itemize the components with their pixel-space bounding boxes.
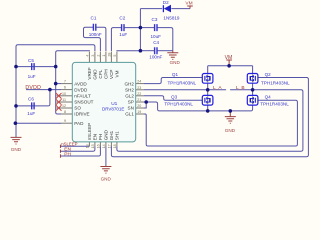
svg-text:5: 5 bbox=[113, 55, 117, 57]
svg-text:2: 2 bbox=[97, 55, 101, 57]
svg-text:C2: C2 bbox=[119, 16, 125, 21]
svg-text:9: 9 bbox=[64, 119, 66, 123]
svg-text:AVDD: AVDD bbox=[74, 81, 87, 86]
svg-text:C1: C1 bbox=[91, 16, 97, 21]
svg-text:23: 23 bbox=[137, 86, 141, 90]
svg-text:PH: PH bbox=[98, 134, 103, 140]
svg-text:SH1: SH1 bbox=[115, 131, 120, 140]
svg-text:GH1: GH1 bbox=[109, 130, 114, 140]
svg-text:DVDD: DVDD bbox=[74, 87, 88, 92]
svg-text:8: 8 bbox=[64, 110, 66, 114]
svg-text:18: 18 bbox=[113, 144, 117, 148]
svg-text:4: 4 bbox=[86, 55, 90, 57]
svg-text:22: 22 bbox=[137, 92, 141, 96]
svg-text:nSLEEP: nSLEEP bbox=[61, 142, 77, 147]
svg-text:TPH1R403NL: TPH1R403NL bbox=[261, 80, 290, 85]
svg-text:14: 14 bbox=[102, 144, 106, 148]
svg-text:TPH1R403NL: TPH1R403NL bbox=[168, 80, 197, 85]
svg-text:VM: VM bbox=[185, 0, 192, 6]
svg-text:VM: VM bbox=[225, 55, 233, 61]
svg-text:Q1: Q1 bbox=[172, 72, 179, 77]
svg-text:nFAULT: nFAULT bbox=[74, 94, 91, 99]
svg-text:1uF: 1uF bbox=[27, 111, 35, 116]
svg-text:100nF: 100nF bbox=[149, 54, 162, 59]
svg-text:10: 10 bbox=[62, 92, 66, 96]
svg-text:1uF: 1uF bbox=[28, 74, 36, 79]
svg-text:SO: SO bbox=[74, 106, 81, 111]
svg-text:28: 28 bbox=[108, 53, 112, 57]
svg-text:SN: SN bbox=[128, 106, 134, 111]
svg-text:SP: SP bbox=[128, 100, 134, 105]
svg-text:12: 12 bbox=[62, 104, 66, 108]
svg-text:C4: C4 bbox=[153, 40, 159, 45]
svg-text:SH2: SH2 bbox=[125, 88, 134, 93]
svg-text:Q4: Q4 bbox=[265, 94, 272, 99]
svg-text:GND: GND bbox=[101, 177, 112, 182]
svg-text:GH2: GH2 bbox=[124, 81, 134, 86]
svg-text:Q3: Q3 bbox=[171, 94, 178, 99]
svg-text:D2: D2 bbox=[163, 0, 169, 5]
svg-text:GL1: GL1 bbox=[125, 112, 134, 117]
svg-text:VM: VM bbox=[115, 70, 120, 77]
svg-text:GND: GND bbox=[11, 147, 22, 152]
svg-text:17: 17 bbox=[108, 144, 112, 148]
svg-text:nSLEEP: nSLEEP bbox=[87, 123, 92, 140]
svg-text:15: 15 bbox=[91, 144, 95, 148]
svg-text:3: 3 bbox=[91, 55, 95, 57]
svg-text:13: 13 bbox=[86, 144, 90, 148]
svg-text:C6: C6 bbox=[28, 97, 34, 102]
svg-text:EN: EN bbox=[93, 134, 98, 140]
svg-text:11: 11 bbox=[62, 98, 66, 102]
svg-text:19: 19 bbox=[137, 110, 141, 114]
svg-text:100nF: 100nF bbox=[89, 32, 102, 37]
svg-text:DVDD: DVDD bbox=[25, 85, 41, 91]
svg-text:24: 24 bbox=[137, 80, 141, 84]
svg-text:SNSOUT: SNSOUT bbox=[74, 100, 93, 105]
svg-text:21: 21 bbox=[137, 98, 141, 102]
svg-text:TPH1R403NL: TPH1R403NL bbox=[164, 102, 193, 107]
svg-text:CPL: CPL bbox=[98, 69, 103, 78]
svg-text:VREF: VREF bbox=[87, 67, 92, 79]
svg-text:7: 7 bbox=[64, 80, 66, 84]
svg-text:GL2: GL2 bbox=[125, 94, 134, 99]
svg-text:C5: C5 bbox=[28, 58, 34, 63]
svg-text:CPH: CPH bbox=[104, 69, 109, 79]
svg-text:TPH1R403NL: TPH1R403NL bbox=[260, 102, 289, 107]
svg-text:1N5819: 1N5819 bbox=[163, 16, 180, 21]
svg-text:GND: GND bbox=[170, 60, 181, 65]
svg-text:DRV8701E: DRV8701E bbox=[102, 107, 124, 112]
svg-text:GND: GND bbox=[93, 69, 98, 80]
svg-text:L_B: L_B bbox=[236, 85, 245, 91]
svg-text:PAD: PAD bbox=[74, 121, 84, 126]
svg-text:C3: C3 bbox=[152, 17, 158, 22]
svg-text:1: 1 bbox=[102, 55, 106, 57]
svg-text:VCP: VCP bbox=[109, 70, 114, 79]
svg-text:PH: PH bbox=[64, 151, 71, 157]
svg-text:IDRIVE: IDRIVE bbox=[74, 112, 89, 117]
svg-text:GND: GND bbox=[104, 129, 109, 140]
svg-text:6: 6 bbox=[64, 86, 66, 90]
svg-text:1uF: 1uF bbox=[119, 32, 127, 37]
svg-text:GND: GND bbox=[225, 128, 236, 133]
svg-text:20: 20 bbox=[137, 104, 141, 108]
svg-text:Q2: Q2 bbox=[265, 72, 272, 77]
svg-text:L_A: L_A bbox=[213, 85, 222, 91]
svg-text:10uF: 10uF bbox=[151, 34, 162, 39]
svg-text:16: 16 bbox=[97, 144, 101, 148]
